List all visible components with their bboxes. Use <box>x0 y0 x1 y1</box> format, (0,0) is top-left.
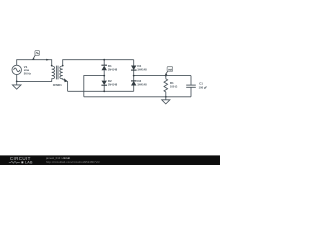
current arrow on top wire <box>46 59 49 61</box>
svg-text:1N4148: 1N4148 <box>137 83 147 87</box>
node AC1 top rail junction <box>103 59 105 61</box>
wire output <box>134 75 191 77</box>
voltage source V1 <box>12 65 21 74</box>
svg-text:D1: D1 <box>108 64 112 68</box>
capacitor C1 <box>186 76 196 97</box>
svg-text:100 µF: 100 µF <box>199 86 208 90</box>
svg-text:LAB: LAB <box>25 161 33 165</box>
svg-text:V1: V1 <box>24 65 28 69</box>
bridge right column <box>133 60 135 92</box>
wire secondary top <box>63 60 134 66</box>
wire mid-left <box>84 76 104 97</box>
svg-text:out: out <box>168 68 172 72</box>
wire AC2 rail <box>68 90 134 92</box>
phase dot secondary <box>62 65 64 67</box>
diode D3 <box>131 80 137 82</box>
svg-text:1N4148: 1N4148 <box>137 67 147 71</box>
node minus mid-left junction <box>103 75 105 77</box>
ground left <box>12 81 21 89</box>
junction dot V1 bottom <box>16 81 18 83</box>
svg-text:XFMR1: XFMR1 <box>53 83 63 87</box>
svg-text:R1: R1 <box>170 81 174 85</box>
footer bar <box>0 155 220 165</box>
diode D4 <box>131 66 136 71</box>
probe flag left <box>32 51 40 60</box>
diode D2 <box>102 81 107 85</box>
core lines <box>56 66 58 80</box>
phase dot primary <box>51 65 53 67</box>
wire top net <box>17 60 52 66</box>
svg-text:D3: D3 <box>137 79 141 83</box>
svg-text:1N4148: 1N4148 <box>108 83 118 87</box>
current arrow on secondary jog <box>64 78 68 82</box>
node plus mid-right junction <box>133 75 135 77</box>
logo resistor zigzag <box>9 161 20 163</box>
svg-text:jamesl_013 / circuit: jamesl_013 / circuit <box>45 156 70 160</box>
node AC2 rail junction <box>103 90 105 92</box>
svg-text:50 Hz: 50 Hz <box>24 71 32 75</box>
transformer XFMR1 <box>52 66 63 80</box>
primary coil <box>52 66 55 79</box>
node out junction R1 top <box>165 75 167 77</box>
resistor R1 <box>164 76 168 97</box>
svg-text:1N4148: 1N4148 <box>108 67 118 71</box>
svg-text:http://circuitlab.com/circuit/: http://circuitlab.com/circuit/od95248h7v… <box>46 160 100 164</box>
secondary coil <box>60 66 63 79</box>
wire primary bottom <box>17 75 52 82</box>
svg-text:C1: C1 <box>199 82 203 86</box>
svg-text:100 Ω: 100 Ω <box>170 84 178 88</box>
bridge left column <box>103 60 105 92</box>
node ground junction R1 bottom <box>165 96 167 98</box>
wire return rail <box>84 96 191 98</box>
svg-text:D2: D2 <box>108 79 112 83</box>
ground right <box>162 97 170 104</box>
probe flag out <box>165 67 173 76</box>
svg-text:D4: D4 <box>137 64 141 68</box>
wire secondary bottom jog <box>63 79 68 91</box>
diode D1 <box>101 64 107 66</box>
